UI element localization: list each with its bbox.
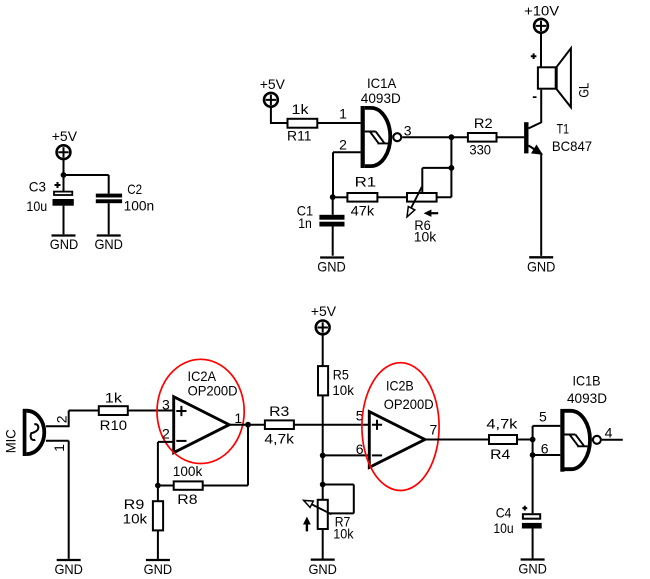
T1 emitter arrow	[533, 146, 542, 154]
svg-text:+10V: +10V	[524, 3, 560, 19]
svg-text:1: 1	[234, 410, 242, 426]
wire R10 to pin 3	[128, 410, 174, 412]
R6 adjust arrow diagonal	[407, 187, 422, 217]
svg-text:GND: GND	[54, 561, 83, 577]
resistor R3	[265, 420, 294, 429]
wire emitter to ground	[540, 153, 542, 256]
junction C1/R1 node	[330, 194, 336, 200]
svg-text:3: 3	[162, 396, 170, 412]
wire node to R9	[157, 486, 159, 502]
junction R7 wiper node	[320, 482, 326, 488]
resistor R8	[174, 481, 203, 489]
speaker polarity -	[533, 96, 537, 98]
svg-text:R5: R5	[333, 366, 349, 382]
svg-text:5: 5	[539, 409, 547, 425]
wire junction to C2	[63, 175, 109, 194]
capacitor C3 positive plate	[54, 192, 72, 195]
ground GND under R9	[144, 560, 173, 577]
wire R2 to T1 base	[497, 136, 525, 138]
wire node to R8	[158, 485, 174, 487]
svg-text:+5V: +5V	[52, 128, 78, 144]
svg-text:100n: 100n	[124, 198, 155, 214]
polarity + of C4	[522, 506, 527, 511]
svg-text:BC847: BC847	[552, 138, 592, 154]
power symbol +5V oscillator	[264, 93, 278, 107]
IC2B plus input	[372, 420, 382, 430]
svg-text:GND: GND	[317, 259, 346, 275]
speaker GL box	[538, 67, 556, 88]
wire +5V to R11	[270, 107, 287, 123]
resistor R1	[347, 193, 377, 202]
junction node C3/C2	[61, 172, 67, 178]
wire MIC pin1 to ground	[46, 441, 69, 559]
R6 left arrow marker	[424, 210, 439, 217]
op-amp IC2A triangle	[174, 397, 230, 453]
svg-text:GND: GND	[518, 561, 547, 577]
svg-text:IC2A: IC2A	[188, 368, 217, 384]
wire +5V to R5	[322, 334, 324, 366]
resistor R11	[288, 119, 318, 128]
svg-text:10k: 10k	[123, 511, 149, 527]
svg-text:4,7k: 4,7k	[264, 430, 295, 446]
wire R3 to IC2B pin 5	[294, 424, 369, 426]
wire node to R1	[333, 196, 348, 198]
resistor R5	[318, 366, 328, 395]
svg-text:1n: 1n	[298, 215, 312, 231]
svg-text:R8: R8	[177, 491, 197, 507]
transistor T1 base bar	[524, 122, 528, 153]
svg-text:MIC: MIC	[2, 429, 18, 453]
wire IC2A output to R3	[229, 424, 265, 426]
ground GND under T1	[527, 257, 556, 274]
junction IC2A output	[245, 422, 251, 428]
wire MIC pin2 to R10	[46, 411, 99, 428]
ground GND under C1	[317, 258, 346, 275]
IC2A plus input	[176, 406, 186, 416]
resistor R9	[153, 501, 163, 530]
wire R1 to R6	[377, 196, 407, 198]
svg-text:1k: 1k	[292, 101, 310, 117]
capacitor C2 plate 2	[96, 199, 122, 203]
resistor R2	[468, 133, 497, 142]
wire pin 2 feedback	[333, 152, 361, 197]
wire node down to C4	[532, 455, 534, 513]
svg-text:R4: R4	[490, 446, 510, 462]
svg-text:OP200D: OP200D	[384, 396, 434, 412]
wire junction to C3	[63, 175, 65, 191]
resistor R4	[489, 435, 517, 444]
wire node to pin 6	[533, 440, 561, 456]
svg-text:GND: GND	[50, 236, 79, 252]
gate IC1A body	[365, 108, 391, 166]
red ellipse around IC2B	[362, 363, 439, 491]
ground GND under C2	[94, 236, 123, 253]
svg-text:1: 1	[339, 106, 347, 122]
capacitor C3 negative plate	[53, 199, 74, 206]
wire pin 6	[323, 454, 370, 456]
wire node to R7	[322, 485, 324, 500]
wire down to wiper node	[322, 455, 324, 484]
svg-text:T1: T1	[557, 121, 570, 137]
junction IC1B pin6	[530, 452, 536, 458]
IC2A minus input	[176, 440, 186, 442]
wire R6 wiper to output node	[422, 168, 451, 193]
microphone squiggle	[31, 424, 39, 440]
wire R8 to output	[203, 425, 248, 486]
red ellipse around IC2A	[157, 359, 244, 463]
svg-text:R9: R9	[124, 496, 145, 512]
svg-text:3: 3	[404, 122, 412, 138]
svg-text:+5V: +5V	[311, 303, 337, 319]
svg-text:C4: C4	[496, 505, 512, 521]
svg-text:C2: C2	[127, 181, 142, 197]
wire IC2B output to R4	[425, 439, 489, 441]
wire C3 to ground	[63, 206, 65, 235]
capacitor C4 positive plate	[523, 514, 540, 519]
ground GND under MIC	[54, 560, 83, 577]
svg-text:IC2B: IC2B	[386, 377, 414, 393]
svg-text:4093D: 4093D	[361, 90, 401, 106]
gate IC1A output bubble	[393, 133, 401, 141]
wire +10V to speaker	[540, 33, 542, 68]
wire R6 right end up to output	[437, 137, 452, 197]
junction output node	[449, 134, 455, 140]
svg-text:GL: GL	[575, 83, 591, 98]
wire collector to speaker	[540, 90, 542, 123]
op-amp IC2B triangle	[369, 412, 425, 468]
svg-text:10u: 10u	[493, 520, 513, 536]
wire C1 to ground	[332, 227, 334, 256]
svg-text:2: 2	[54, 415, 70, 423]
svg-text:IC1B: IC1B	[573, 373, 601, 389]
svg-text:2: 2	[339, 136, 347, 152]
svg-text:47k: 47k	[351, 203, 376, 219]
microphone MIC body	[26, 411, 44, 454]
speaker GL cone	[557, 48, 571, 107]
svg-text:10k: 10k	[333, 526, 354, 542]
potentiometer R6	[407, 193, 437, 202]
wire IC1B output	[602, 439, 623, 441]
wire R7 to ground	[322, 529, 324, 559]
wire pin 2 to feedback node	[158, 442, 174, 486]
svg-text:GND: GND	[94, 236, 123, 252]
svg-text:GND: GND	[144, 561, 173, 577]
svg-text:R1: R1	[355, 173, 377, 189]
ground GND under C4	[518, 560, 547, 577]
wire node up to pin 5	[533, 426, 561, 440]
IC2B minus input	[372, 454, 382, 456]
svg-text:GND: GND	[308, 561, 337, 577]
wire gate output to R2	[402, 136, 468, 138]
power symbol +5V top-left	[57, 145, 71, 159]
gate IC1B input bar	[560, 409, 564, 472]
junction pin 6 node	[320, 453, 326, 459]
svg-text:R2: R2	[474, 115, 493, 131]
svg-text:R10: R10	[100, 417, 128, 433]
wire R11 to pin 1	[317, 122, 360, 124]
wire R9 to ground	[157, 530, 159, 559]
svg-text:C3: C3	[29, 179, 46, 195]
power symbol +10V	[534, 19, 548, 33]
polarity + of C3	[55, 182, 61, 188]
svg-text:+5V: +5V	[260, 76, 286, 92]
R7 adjust arrow diagonal	[304, 500, 332, 514]
svg-text:7: 7	[430, 422, 438, 438]
svg-text:100k: 100k	[173, 463, 203, 479]
speaker polarity +	[531, 53, 537, 59]
gate IC1B output bubble	[593, 436, 601, 444]
microphone MIC bar	[23, 409, 27, 456]
wire R7 wiper loop	[323, 485, 354, 514]
svg-text:1: 1	[51, 444, 67, 452]
capacitor C4 negative plate	[522, 523, 542, 529]
gate IC1B hysteresis symbol	[565, 435, 588, 447]
gate IC1A hysteresis symbol	[365, 132, 388, 144]
ground GND under R7	[308, 560, 337, 577]
svg-text:OP200D: OP200D	[188, 383, 238, 399]
svg-text:330: 330	[469, 142, 491, 158]
svg-text:1k: 1k	[105, 390, 123, 406]
svg-text:2: 2	[162, 426, 170, 442]
svg-text:IC1A: IC1A	[367, 75, 397, 91]
svg-text:R3: R3	[269, 403, 289, 419]
svg-text:4093D: 4093D	[567, 390, 607, 406]
junction feedback node	[155, 483, 161, 489]
junction R6 wiper	[449, 165, 455, 171]
junction R4/IC1B pin5	[530, 437, 536, 443]
T1 collector	[529, 122, 542, 128]
wire C4 to ground	[532, 529, 534, 559]
resistor R10	[99, 406, 128, 415]
capacitor C2 plate 1	[96, 194, 122, 198]
ground GND under C3	[50, 236, 79, 253]
gate IC1B body	[565, 411, 591, 469]
svg-text:4: 4	[605, 425, 613, 441]
svg-text:GND: GND	[527, 258, 556, 274]
wire R4 to node	[517, 439, 533, 441]
svg-text:10k: 10k	[332, 382, 354, 398]
capacitor C1 plate 1	[319, 215, 344, 220]
svg-text:10u: 10u	[26, 198, 47, 214]
wire R5 down through pin5 crossing	[322, 395, 324, 455]
power symbol +5V comparator	[316, 321, 330, 335]
wire C2 to ground	[108, 203, 110, 234]
capacitor C1 plate 2	[319, 222, 344, 227]
R7 up arrow marker	[303, 517, 311, 532]
svg-text:6: 6	[541, 440, 549, 456]
op-amp gate IC1A input bar	[361, 106, 365, 168]
T1 emitter	[529, 146, 542, 154]
wire +5V to junction	[63, 159, 65, 175]
svg-text:10k: 10k	[414, 228, 437, 244]
potentiometer R7	[318, 500, 328, 529]
svg-text:R11: R11	[287, 128, 312, 144]
svg-text:4,7k: 4,7k	[486, 415, 518, 431]
wire node to C1	[332, 197, 334, 215]
